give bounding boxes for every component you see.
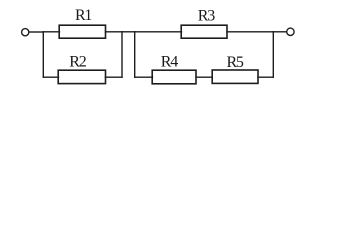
svg-text:R5: R5: [226, 54, 243, 71]
wire: R3 right lead to node D: [227, 31, 273, 33]
node C: left junction vertical of second parallel group: [134, 32, 136, 77]
right terminal: [287, 28, 294, 35]
wire: left terminal to node A: [29, 31, 43, 33]
svg-text:R3: R3: [198, 7, 215, 24]
wire: node D to right terminal: [273, 31, 286, 33]
resistor R5 body: [212, 70, 258, 83]
resistor R4 body: [152, 70, 196, 84]
node D: right junction vertical wire: [272, 32, 274, 77]
resistor R3 body: [181, 25, 227, 38]
node A: left junction vertical wire: [42, 32, 44, 77]
svg-text:R4: R4: [161, 53, 178, 70]
resistor R2 body: [58, 70, 105, 83]
wire: node A to R2 left lead: [43, 76, 58, 78]
wire: R2 right lead to node B: [106, 76, 123, 78]
wire: node C to R4 left lead: [135, 76, 153, 78]
resistor R1 body: [59, 25, 105, 38]
node B: right junction vertical of first parallel group: [121, 32, 123, 77]
left terminal: [22, 29, 29, 36]
wire: R1 right lead to node B: [106, 31, 123, 33]
wire: R5 right lead to node D: [258, 76, 273, 78]
wire: node A to R1 left lead: [43, 31, 59, 33]
svg-text:R2: R2: [69, 53, 86, 70]
wire: R4 to R5: [196, 76, 212, 78]
wire: node C to R3 left lead: [135, 31, 182, 33]
svg-text:R1: R1: [75, 7, 92, 24]
wire: node B to node C: [122, 31, 135, 33]
